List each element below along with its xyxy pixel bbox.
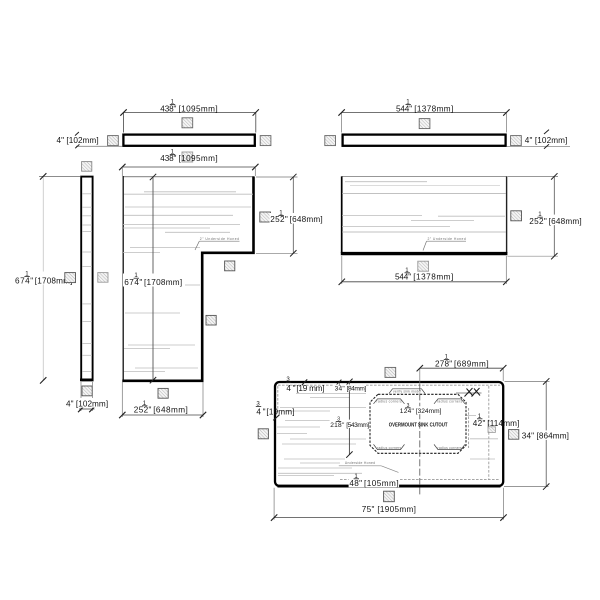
grip left of E right label — [511, 211, 522, 221]
grip left of C right label — [260, 212, 271, 222]
underside honed label (F) — [339, 461, 399, 472]
svg-text:[19mm]: [19mm] — [266, 408, 294, 417]
underside honed label (C) — [195, 237, 240, 250]
label 25-1/2 [648mm] (E right) — [529, 211, 584, 226]
label 25-1/2 [648mm] (C bottom) — [134, 400, 188, 415]
faucet cluster marks — [456, 388, 482, 397]
label 12-3/4 [324mm] — [399, 403, 442, 415]
grip below 4-1/2 label — [488, 427, 495, 433]
grip behind C top label — [182, 152, 193, 162]
svg-text:radius corners: radius corners — [377, 400, 403, 404]
sink corner labels — [377, 389, 463, 449]
svg-text:[324mm]: [324mm] — [416, 408, 442, 415]
svg-text:[84mm]: [84mm] — [347, 386, 367, 393]
label 43-1/8 [1095mm] — [160, 99, 217, 114]
label 25-1/2 [648mm] (C right) — [270, 210, 325, 225]
dimension 4in below B — [65, 382, 109, 412]
svg-text:4" [102mm]: 4" [102mm] — [57, 136, 99, 145]
svg-text:OVERMOUNT SINK CUTOUT: OVERMOUNT SINK CUTOUT — [389, 422, 448, 428]
svg-text:[689mm]: [689mm] — [454, 360, 489, 369]
veining in C — [123, 192, 253, 372]
dimension 3/4 [19mm] top-left — [286, 376, 325, 393]
svg-text:verify sink model: verify sink model — [393, 389, 421, 393]
grip on B label — [65, 273, 76, 283]
veining in F — [277, 394, 498, 476]
svg-text:438": 438" — [160, 104, 176, 113]
grip right of D — [511, 136, 522, 146]
grip left of island — [258, 429, 268, 439]
dimension 43-1/8 above A — [120, 109, 259, 132]
tick and label 3-1/4 [84mm] top — [334, 380, 366, 393]
label 4-1/8 [105mm] — [349, 473, 400, 488]
dimension 54-1/4 above D — [338, 109, 509, 132]
svg-text:2" Underside Honed: 2" Underside Honed — [428, 237, 466, 241]
svg-text:48": 48" — [349, 479, 362, 488]
L-shape outline thin edges — [122, 176, 254, 381]
label 27-1/8 [689mm] — [435, 353, 489, 368]
dimension 4-1/2 [114mm] — [473, 413, 520, 428]
dimension 67-1/4 left of B — [39, 173, 80, 383]
svg-text:radius corners: radius corners — [438, 446, 463, 450]
sink centerline — [419, 384, 421, 496]
svg-text:4" [102mm]: 4" [102mm] — [525, 136, 568, 145]
dimension 25-1/2 right of C — [256, 174, 298, 257]
underside honed label (E) — [423, 237, 466, 251]
svg-text:[1095mm]: [1095mm] — [179, 104, 218, 113]
extra dashed verticals right — [469, 386, 489, 480]
svg-text:42": 42" — [473, 419, 486, 428]
grip right of A — [260, 136, 271, 146]
svg-text:[648mm]: [648mm] — [549, 217, 582, 226]
backsplash A outline — [123, 135, 254, 146]
grip above A — [182, 118, 193, 128]
dimension 27-1/8 top — [417, 365, 507, 384]
grip above E bottom label — [418, 261, 429, 271]
label 21-3/8 [543mm] — [330, 416, 370, 428]
svg-text:278": 278" — [435, 360, 452, 369]
svg-text:438": 438" — [160, 154, 176, 163]
grip below island — [384, 491, 395, 502]
svg-text:radius corners: radius corners — [437, 400, 463, 404]
internal dimension line 67-1/4 (C) — [150, 174, 156, 384]
svg-text:[1708mm]: [1708mm] — [144, 278, 182, 287]
grip right of B — [98, 273, 108, 283]
grip above island — [385, 367, 396, 377]
grip above D — [419, 119, 430, 129]
dimension 43-1/8 above C — [119, 164, 258, 176]
svg-text:124": 124" — [400, 408, 415, 415]
sink corner label banners — [374, 389, 466, 450]
dimension 3/4 [19mm] left — [256, 401, 295, 421]
dimension 25-1/2 right of E — [508, 173, 559, 259]
grip above B — [82, 162, 92, 172]
label 54-1/4 [1378mm] (E bottom) — [395, 267, 453, 282]
svg-text:[648mm]: [648mm] — [153, 405, 188, 414]
svg-text:[1378mm]: [1378mm] — [413, 273, 453, 282]
dimension 4in height at left of A — [57, 132, 123, 148]
sink cutout dashed outline — [370, 394, 466, 453]
grip right of C lower leg — [206, 315, 216, 325]
dimension 75 below island — [271, 488, 507, 521]
label 67-1/4 [1708mm] (B) — [14, 271, 73, 286]
svg-text:218": 218" — [330, 422, 345, 429]
dimension 21-3/8 vertical — [346, 379, 352, 458]
grip below B — [82, 386, 92, 396]
grip at C step — [225, 261, 235, 271]
island outline — [275, 382, 503, 486]
grip left of A — [108, 136, 119, 146]
dimension 4in right of D — [507, 130, 570, 149]
svg-text:[105mm]: [105mm] — [364, 479, 399, 488]
dimension 34 right of island — [504, 378, 550, 490]
inner dashed setback — [278, 385, 500, 479]
svg-text:75" [1905mm]: 75" [1905mm] — [362, 505, 416, 514]
svg-text:4" [102mm]: 4" [102mm] — [66, 399, 108, 408]
svg-text:Underside Honed: Underside Honed — [345, 461, 375, 465]
label 43-1/8 [1095mm] (C) — [160, 148, 217, 163]
svg-text:radius corners: radius corners — [377, 446, 402, 450]
veining in B — [83, 194, 93, 372]
svg-text:2" Underside Honed: 2" Underside Honed — [200, 237, 239, 241]
dimension 25-1/2 below C — [119, 382, 206, 418]
svg-text:[543mm]: [543mm] — [346, 422, 369, 429]
svg-text:[1095mm]: [1095mm] — [179, 154, 218, 163]
svg-text:[19 mm]: [19 mm] — [296, 384, 324, 393]
label 54-1/4 [1378mm] (D) — [396, 99, 453, 114]
backsplash D outline — [343, 135, 506, 146]
svg-text:544": 544" — [396, 104, 412, 113]
grip below C — [158, 388, 168, 398]
dimension 54-1/4 below E — [339, 256, 510, 285]
svg-text:[1378mm]: [1378mm] — [414, 104, 453, 113]
svg-text:[648mm]: [648mm] — [290, 215, 323, 224]
svg-text:674": 674" — [15, 276, 33, 285]
svg-text:674": 674" — [124, 278, 142, 287]
veining in E — [342, 182, 506, 232]
svg-text:34" [864mm]: 34" [864mm] — [522, 432, 569, 441]
grip left of 34 label — [509, 430, 519, 440]
label 67-1/4 [1708mm] (C) — [123, 272, 184, 287]
grip left of D — [325, 136, 336, 146]
backsplash B outline — [80, 177, 93, 381]
countertop E outline — [341, 176, 508, 253]
svg-text:544": 544" — [395, 273, 411, 282]
label 34 [864mm] — [521, 430, 570, 440]
svg-text:1: 1 — [338, 381, 341, 387]
